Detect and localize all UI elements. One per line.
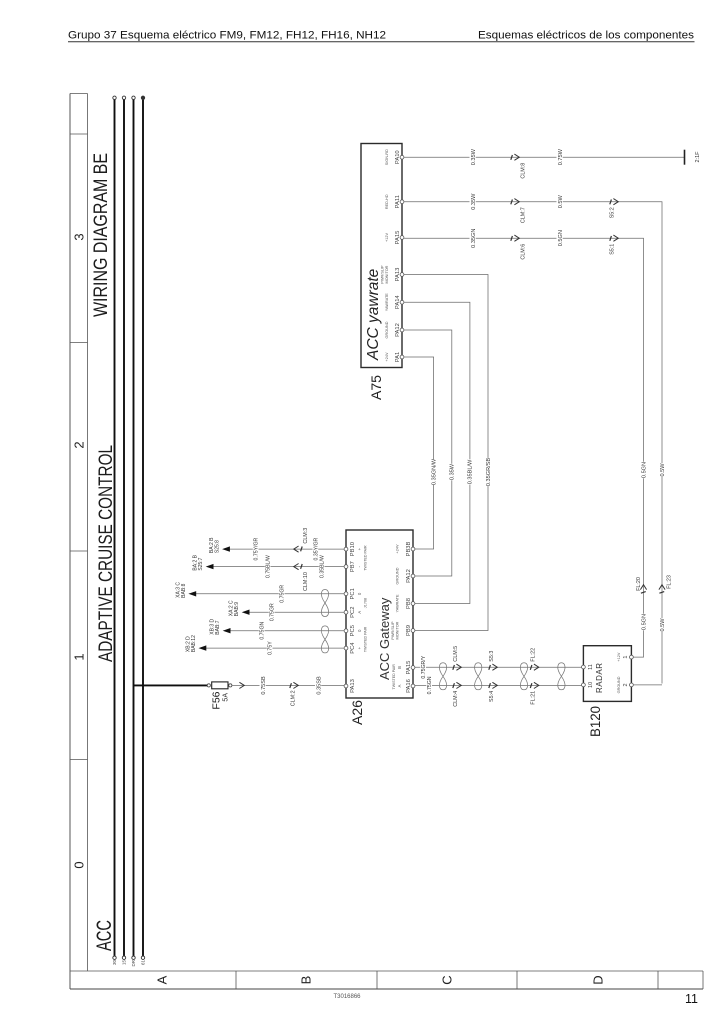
wire twisted pair A 0.75GN A26 PA16 to B120 pin 10 [415, 684, 582, 686]
svg-text:SIGN-RD: SIGN-RD [385, 149, 389, 165]
svg-text:CLM:4: CLM:4 [453, 691, 459, 707]
svg-text:Grupo 37 Esquema eléctrico FM9: Grupo 37 Esquema eléctrico FM9, FM12, FH… [68, 30, 386, 42]
connector CLM:10 [294, 564, 299, 570]
connector FL:21 [534, 682, 539, 688]
svg-text:0.5W: 0.5W [660, 618, 666, 632]
svg-text:TWISTED PAIR: TWISTED PAIR [364, 626, 368, 652]
svg-text:S5:2: S5:2 [610, 207, 616, 218]
svg-text:0.75BL/W: 0.75BL/W [266, 555, 272, 578]
svg-text:0.35SB: 0.35SB [316, 676, 322, 695]
svg-text:0.75GN: 0.75GN [427, 676, 433, 694]
svg-text:S25:7: S25:7 [198, 557, 204, 570]
connector CLM:4 [456, 682, 461, 688]
svg-text:0.35BL/W: 0.35BL/W [468, 459, 474, 484]
svg-text:T3016866: T3016866 [333, 994, 361, 1000]
svg-text:PA12: PA12 [395, 323, 401, 337]
svg-text:2:1F: 2:1F [695, 151, 701, 163]
wire 0.75GN from A26 to XB:3 D BAB:7 [230, 630, 344, 632]
svg-text:0.35W: 0.35W [471, 193, 477, 210]
twisted pair symbol [520, 663, 527, 690]
svg-text:30: 30 [112, 960, 117, 966]
svg-text:FL:21: FL:21 [531, 691, 537, 705]
svg-text:5A: 5A [223, 693, 230, 702]
wire 0.75Y/GR from A26 to BA:2 B S25:8 [229, 548, 344, 550]
svg-text:3: 3 [72, 233, 87, 240]
column number band ticks [70, 93, 88, 95]
svg-text:0.35GN: 0.35GN [471, 229, 477, 248]
svg-text:0.35W: 0.35W [450, 463, 456, 480]
svg-text:FL:22: FL:22 [531, 648, 537, 662]
svg-text:0.75GR: 0.75GR [270, 603, 276, 621]
splice S5:4 [492, 682, 497, 688]
sensor A75 ACC yawrate box [361, 144, 402, 368]
B120 pin 11 [582, 665, 586, 669]
svg-text:F56: F56 [211, 691, 223, 709]
svg-text:0.35BL/W: 0.35BL/W [320, 555, 326, 578]
svg-text:A: A [397, 684, 402, 687]
svg-text:0.35GR/SB: 0.35GR/SB [486, 458, 492, 487]
A75 pin PA13 [400, 273, 404, 277]
svg-text:S5:1: S5:1 [610, 244, 616, 255]
wire 0.35GN / 0.5GN A75 PA15 to B120 pin 1 [404, 238, 644, 657]
svg-text:CLM:10: CLM:10 [303, 572, 309, 591]
svg-text:0.5W: 0.5W [558, 194, 564, 208]
twisted pair symbol [439, 663, 446, 690]
svg-text:ACC: ACC [93, 920, 116, 951]
wire: rail DR tap to fuse F56 [134, 684, 208, 686]
svg-text:0.5GN: 0.5GN [558, 230, 564, 246]
svg-text:CLM:3: CLM:3 [303, 528, 309, 544]
A26 pin PB10 [344, 547, 348, 551]
svg-text:ACC Gateway: ACC Gateway [377, 597, 392, 680]
power rail 15 [123, 100, 125, 957]
twisted pair symbol [558, 663, 565, 690]
wire 0.35GN/W A26 to A75 [404, 357, 434, 549]
A26 pin PB7 [344, 565, 348, 569]
svg-text:BAB:12: BAB:12 [191, 635, 197, 652]
splice S5:1 [613, 235, 618, 241]
svg-text:YAWRATE: YAWRATE [396, 594, 400, 613]
svg-text:0.75Y: 0.75Y [268, 641, 274, 655]
svg-text:0.75GR/Y: 0.75GR/Y [421, 655, 427, 678]
svg-text:RADAR: RADAR [595, 662, 604, 693]
svg-text:11: 11 [588, 664, 594, 670]
svg-text:PC4: PC4 [350, 642, 356, 654]
wire label 0.75SB [260, 676, 266, 696]
A26 pin PA12 [411, 574, 415, 578]
svg-text:CLM:8: CLM:8 [521, 163, 527, 179]
svg-text:PA16: PA16 [406, 679, 412, 693]
svg-text:0.75W: 0.75W [558, 148, 564, 165]
wire twisted pair B 0.75GR/Y A26 PA15 to B120 pin 11 [415, 666, 582, 668]
fuse F56 5A [207, 684, 210, 687]
svg-text:PA10: PA10 [395, 150, 401, 164]
svg-text:1: 1 [72, 653, 87, 660]
svg-text:PA11: PA11 [395, 195, 401, 208]
twisted pair symbol (PC4/PC5) [321, 626, 328, 653]
svg-text:PB3B: PB3B [406, 541, 412, 556]
wire 0.75Y from A26 to XB:2 D BAB:12 [206, 647, 345, 649]
svg-text:GROUND: GROUND [396, 567, 400, 584]
connector CLM:3 [294, 546, 299, 552]
svg-text:PB9: PB9 [406, 625, 412, 636]
svg-text:D: D [591, 975, 606, 984]
A26 pin PA16 [411, 684, 415, 688]
svg-text:A75: A75 [369, 375, 384, 400]
B120 pin 2 [630, 683, 634, 687]
svg-text:+24V: +24V [385, 352, 389, 361]
svg-text:A: A [155, 975, 170, 984]
wire 0.35W A26 to A75 [404, 330, 452, 576]
B120 pin 10 [582, 683, 586, 687]
svg-text:J1708: J1708 [364, 598, 368, 608]
svg-text:PA14: PA14 [395, 295, 401, 310]
svg-text:CLM:5: CLM:5 [453, 646, 459, 662]
B120 pin 1 [630, 655, 634, 659]
A26 pin PB8 [411, 602, 415, 606]
svg-text:A: A [357, 611, 362, 614]
svg-text:MONITOR: MONITOR [396, 621, 400, 639]
svg-text:2: 2 [623, 683, 629, 686]
wire 0.75GR from A26 to XA:2 C BAB:9 [249, 611, 344, 613]
svg-text:PC5: PC5 [350, 625, 356, 636]
A26 pin PC1 [344, 592, 348, 596]
connector CLM:6 [514, 235, 519, 241]
svg-text:PC1: PC1 [350, 588, 356, 599]
splice S5:2 [613, 199, 618, 205]
wire label 0.35SB [315, 676, 321, 696]
wire 0.75BL/W from A26 to BA:2 B S25:7 [213, 566, 344, 568]
svg-text:GROUND: GROUND [617, 676, 621, 693]
svg-text:+12V: +12V [385, 233, 389, 242]
power rail 61 [142, 100, 144, 957]
A75 pin PA1 [400, 355, 404, 359]
header rule [68, 41, 695, 43]
A26 pin PC5 [344, 629, 348, 633]
svg-text:YAWRATE: YAWRATE [385, 293, 389, 312]
svg-text:PA15: PA15 [395, 231, 401, 245]
svg-text:0.75SB: 0.75SB [261, 676, 267, 695]
splice S5:3 [492, 664, 497, 670]
wire: F56 to A26 pin PA13 [232, 684, 344, 686]
svg-text:PA13: PA13 [350, 679, 356, 693]
svg-text:0.35GN/W: 0.35GN/W [431, 458, 437, 485]
row letter band ticks [235, 971, 237, 989]
A75 pin PA11 [400, 200, 404, 204]
svg-text:0.75Y/GR: 0.75Y/GR [254, 537, 260, 560]
svg-text:10: 10 [588, 682, 594, 688]
svg-text:0.75GR: 0.75GR [280, 585, 286, 603]
svg-text:FL:23: FL:23 [667, 575, 673, 589]
svg-text:0.5GN: 0.5GN [641, 462, 647, 478]
svg-text:1: 1 [623, 656, 629, 659]
svg-text:B120: B120 [588, 706, 603, 737]
svg-text:WIRING DIAGRAM BE: WIRING DIAGRAM BE [90, 153, 112, 317]
svg-text:B: B [397, 666, 402, 669]
svg-text:BAB:9: BAB:9 [234, 602, 240, 616]
A26 pin PA15 [411, 666, 415, 670]
svg-text:BAB:8: BAB:8 [181, 583, 187, 597]
svg-text:61: 61 [141, 960, 146, 966]
A75 pin PA14 [400, 300, 404, 304]
connector CLM:7 [514, 199, 519, 205]
svg-text:0.5W: 0.5W [660, 463, 666, 477]
svg-text:PB10: PB10 [350, 542, 356, 556]
svg-text:DR: DR [131, 959, 136, 966]
twisted pair symbol [475, 663, 482, 690]
connector FL:22 [534, 664, 539, 670]
svg-text:PA15: PA15 [406, 661, 412, 675]
svg-text:+24V: +24V [396, 544, 400, 553]
A75 pin PA15 [400, 236, 404, 240]
svg-text:PWR/SLIP: PWR/SLIP [391, 621, 395, 640]
A26 pin PA13 [344, 684, 348, 688]
svg-text:RED-HD: RED-HD [385, 194, 389, 209]
connector CLM:2 [293, 682, 298, 688]
A75 pin PA10 [400, 155, 404, 159]
svg-text:CLM:2: CLM:2 [291, 690, 297, 706]
svg-text:GROUND: GROUND [385, 321, 389, 338]
svg-text:0.5GN: 0.5GN [641, 614, 647, 630]
connector FL:20 [640, 585, 646, 590]
svg-text:MONITOR: MONITOR [385, 265, 389, 283]
svg-text:C: C [440, 975, 455, 984]
svg-text:BAB:7: BAB:7 [215, 620, 221, 634]
power rail 30 [114, 100, 116, 957]
A26 pin PB9 [411, 629, 415, 633]
svg-text:PA13: PA13 [395, 268, 401, 282]
svg-text:PWR/SLIP: PWR/SLIP [380, 265, 384, 284]
border frame: inner band lines [87, 94, 89, 972]
svg-text:0.75GN: 0.75GN [260, 622, 266, 640]
svg-text:2: 2 [72, 441, 87, 448]
wire 0.35W / 0.5W A75 PA11 to B120 pin 2 [404, 202, 662, 684]
sensor B120 RADAR box [583, 646, 631, 702]
svg-text:+12V: +12V [617, 652, 621, 661]
terminator 2:1F [684, 150, 686, 165]
svg-text:S5:4: S5:4 [489, 691, 495, 702]
A26 pin PB3B [411, 547, 415, 551]
A75 pin PA12 [400, 328, 404, 332]
svg-text:PB8: PB8 [406, 598, 412, 609]
wire stub B120 pin 2 down [633, 684, 662, 686]
svg-text:15: 15 [122, 960, 127, 966]
svg-text:PA12: PA12 [406, 569, 412, 583]
wire 0.35BL/W A26 to A75 [404, 302, 470, 603]
svg-text:PC2: PC2 [350, 607, 356, 618]
power rail DR [133, 100, 135, 957]
svg-text:A26: A26 [350, 700, 365, 725]
svg-text:FL:20: FL:20 [636, 577, 642, 591]
svg-text:11: 11 [685, 992, 698, 1006]
connector CLM:8 [514, 154, 519, 160]
svg-text:B: B [299, 976, 314, 985]
A26 pin PC2 [344, 610, 348, 614]
border frame: outer edge lines [69, 94, 71, 990]
connector FL:23 [659, 585, 665, 590]
svg-text:TWISTED PAIR: TWISTED PAIR [364, 545, 368, 571]
svg-text:PB7: PB7 [350, 561, 356, 572]
inline connector chevron [239, 682, 244, 688]
twisted pair symbol (PC1/PC2) [321, 590, 328, 617]
wire 0.35W A75 PA10 to 2:1F [404, 156, 685, 158]
svg-text:CLM:7: CLM:7 [521, 207, 527, 223]
svg-text:0: 0 [72, 861, 87, 868]
svg-text:CLM:6: CLM:6 [521, 244, 527, 260]
svg-text:S25:8: S25:8 [215, 540, 221, 553]
wire 0.75GR from A26 to XA:3 C BAB:8 [195, 593, 344, 595]
svg-text:PA1: PA1 [395, 352, 401, 363]
ECU A26 ACC Gateway box [346, 530, 413, 698]
svg-text:0.35Y/GR: 0.35Y/GR [313, 537, 319, 560]
svg-text:Esquemas eléctricos de los com: Esquemas eléctricos de los componentes [478, 30, 694, 42]
svg-text:TWISTED PAIR: TWISTED PAIR [392, 664, 396, 690]
A26 pin PC4 [344, 646, 348, 650]
svg-text:0.35W: 0.35W [471, 148, 477, 165]
connector CLM:5 [456, 664, 461, 670]
wire 0.35GR/SB A26 to A75 [404, 275, 488, 631]
svg-text:S5:3: S5:3 [489, 651, 495, 662]
